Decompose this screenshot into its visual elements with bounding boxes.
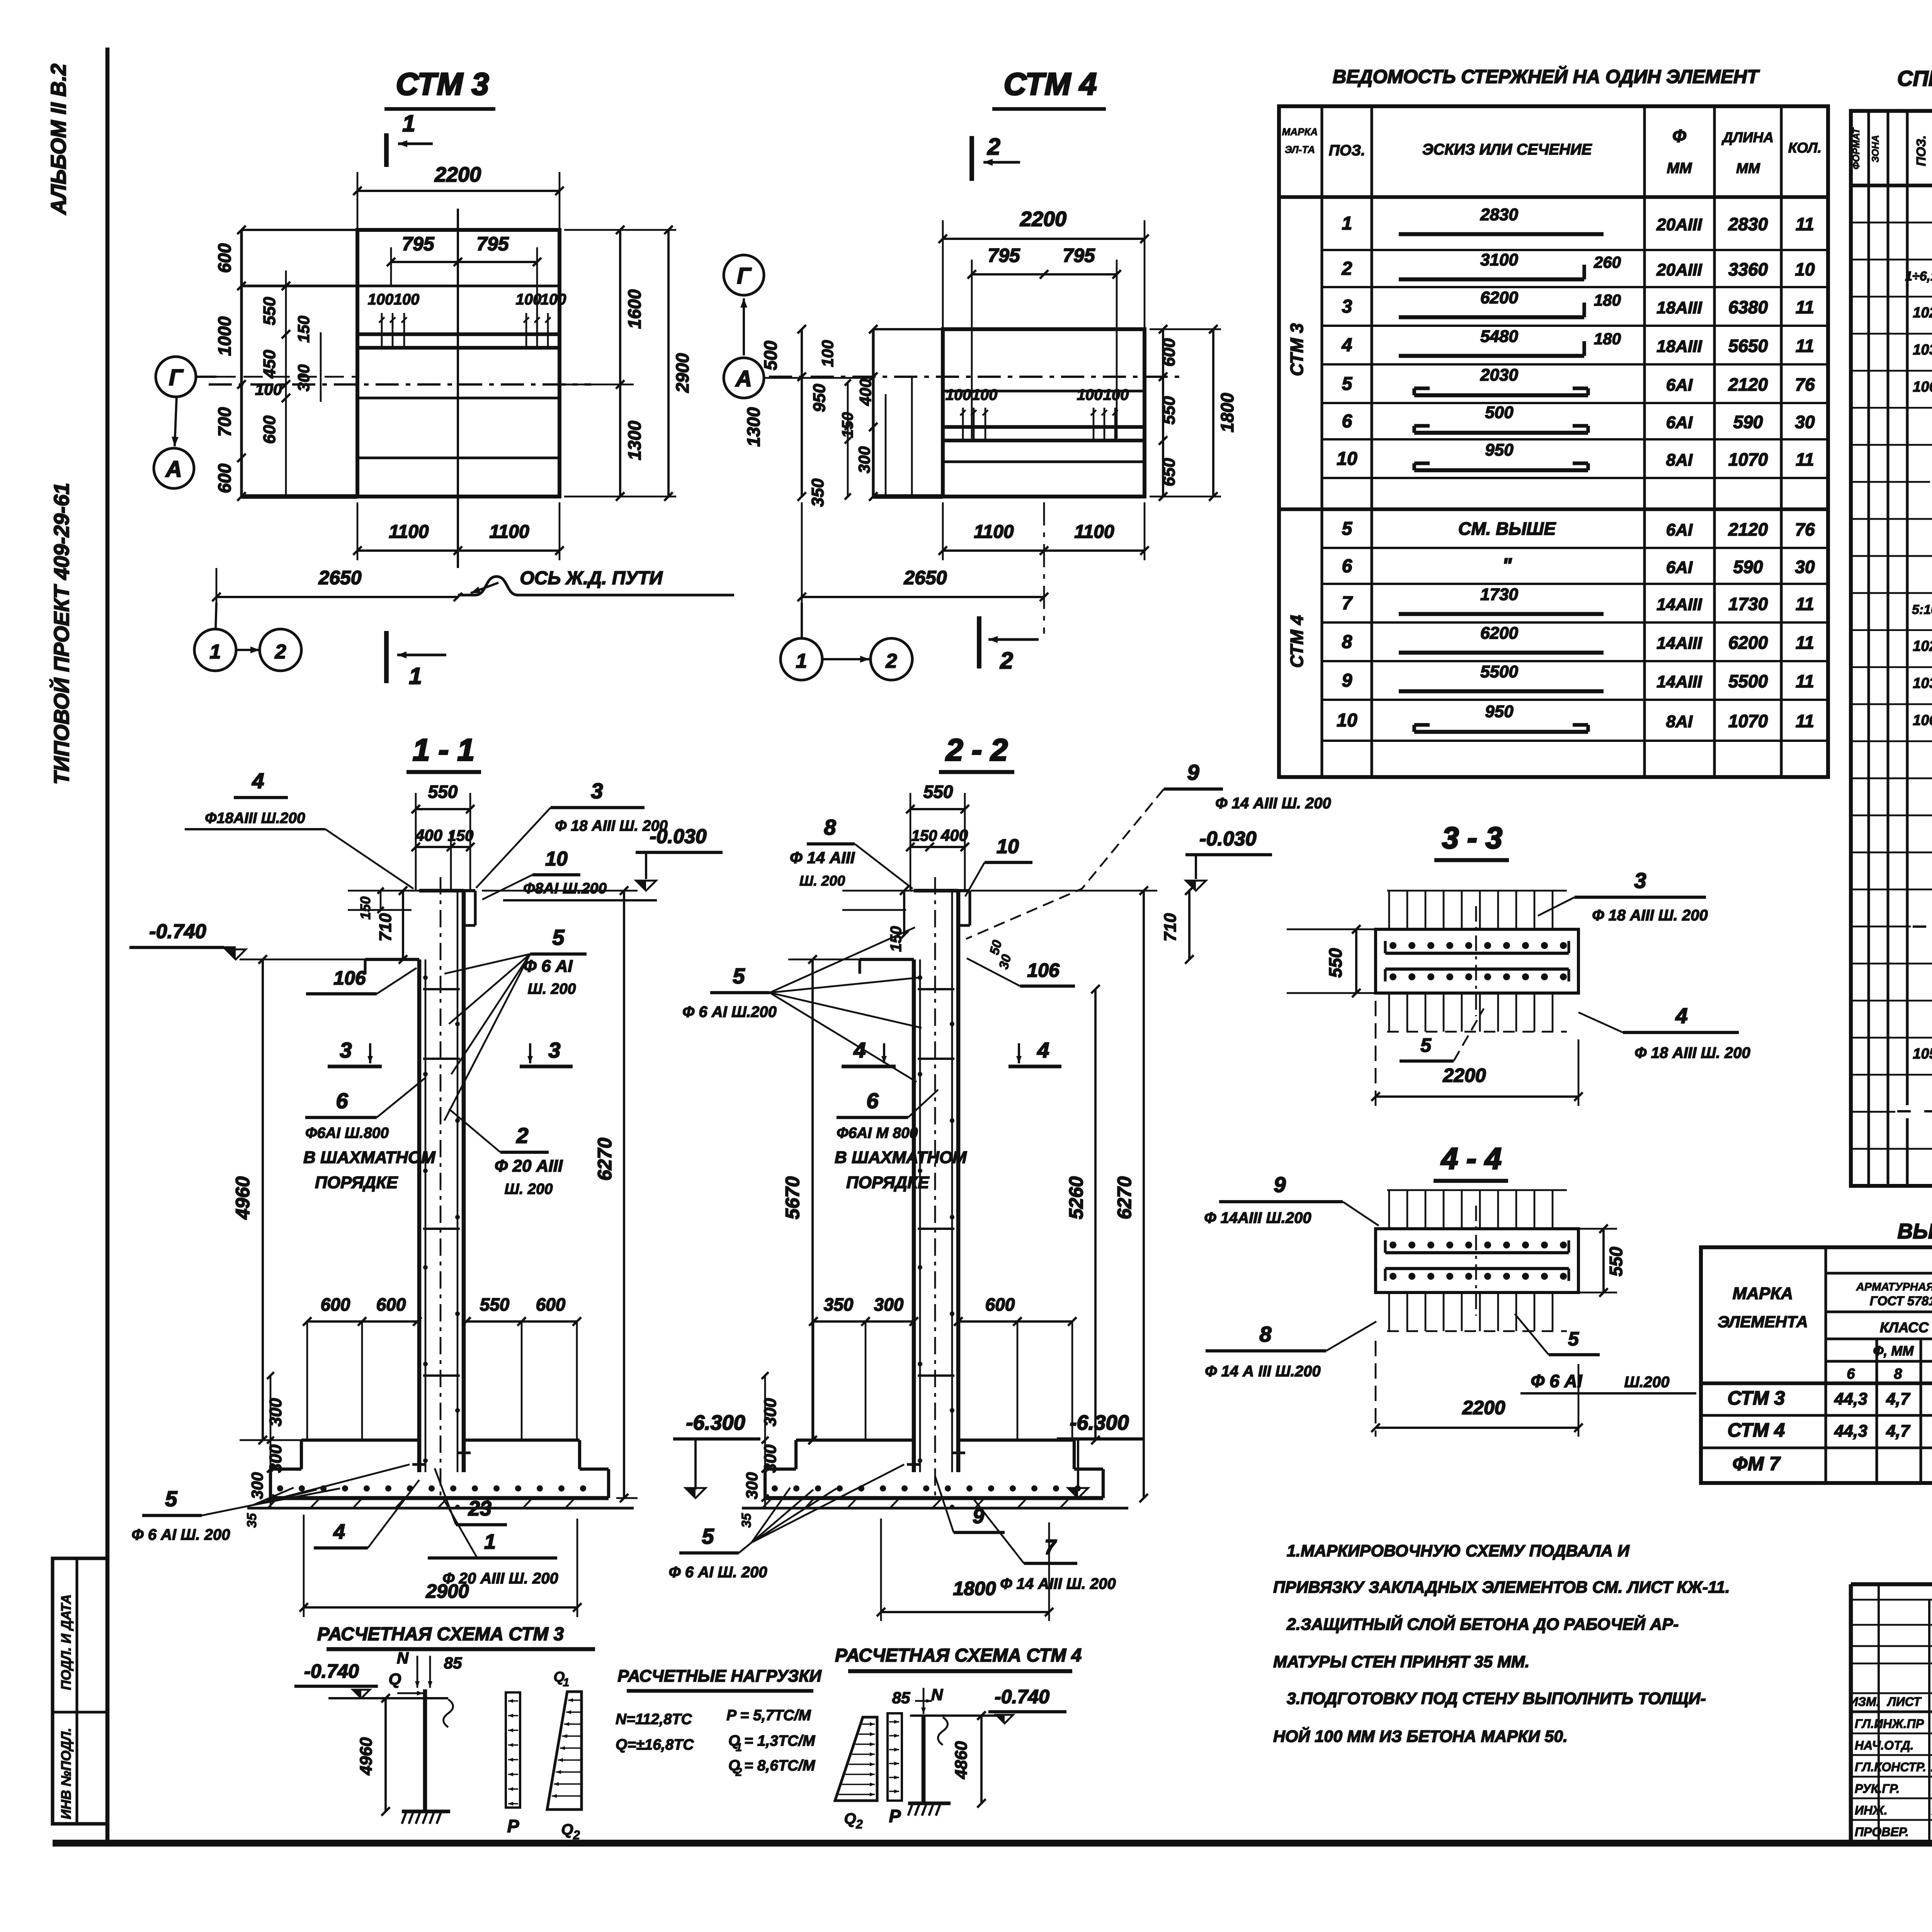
svg-text:1100: 1100 [489, 522, 529, 542]
svg-text:35: 35 [739, 1513, 754, 1528]
svg-text:3: 3 [1342, 296, 1352, 317]
svg-text:30: 30 [1795, 557, 1815, 577]
svg-text:1: 1 [409, 663, 422, 689]
svg-text:СТМ 4: СТМ 4 [1004, 67, 1097, 102]
svg-text:-0.740: -0.740 [149, 920, 206, 943]
svg-text:18АIII: 18АIII [1656, 298, 1702, 317]
svg-text:5: 5 [1568, 1328, 1579, 1350]
svg-text:МАРКА: МАРКА [1733, 1284, 1793, 1303]
svg-text:2900: 2900 [672, 353, 692, 393]
svg-text:5500: 5500 [1728, 671, 1768, 691]
svg-text:Ф8АI Ш.200: Ф8АI Ш.200 [523, 880, 607, 897]
svg-text:3: 3 [548, 1038, 560, 1062]
svg-text:1000: 1000 [214, 316, 235, 356]
svg-text:1.МАРКИРОВОЧНУЮ СХЕМУ ПОДВ: 1.МАРКИРОВОЧНУЮ СХЕМУ ПОДВАЛА И [1287, 1542, 1630, 1560]
svg-text:1: 1 [210, 641, 221, 663]
svg-text:100: 100 [972, 386, 998, 403]
svg-text:3100: 3100 [1480, 250, 1518, 269]
svg-text:102: 102 [1913, 638, 1932, 655]
svg-text:76: 76 [1795, 519, 1815, 539]
svg-text:590: 590 [1733, 412, 1763, 432]
svg-text:1300: 1300 [624, 420, 645, 460]
svg-text:5670: 5670 [782, 1176, 803, 1219]
svg-text:АРМАТУРНАЯ СТАЛЬ: АРМАТУРНАЯ СТАЛЬ [1856, 1281, 1932, 1293]
svg-text:11: 11 [1796, 711, 1814, 731]
svg-text:5650: 5650 [1728, 336, 1768, 356]
svg-text:350: 350 [824, 1294, 854, 1315]
svg-text:6380: 6380 [1728, 297, 1768, 317]
svg-text:400: 400 [856, 379, 874, 406]
svg-text:1: 1 [736, 1741, 742, 1754]
svg-text:-0.740: -0.740 [995, 1686, 1049, 1708]
svg-text:2650: 2650 [318, 567, 361, 588]
svg-text:Ф6АI Ш.800: Ф6АI Ш.800 [305, 1125, 389, 1141]
svg-text:6АI: 6АI [1666, 376, 1693, 395]
svg-text:P: P [889, 1806, 901, 1826]
svg-text:ОСЬ Ж.Д. ПУТИ: ОСЬ Ж.Д. ПУТИ [520, 568, 663, 588]
svg-text:2200: 2200 [1020, 207, 1066, 231]
svg-text:4960: 4960 [357, 1737, 376, 1776]
svg-text:105: 105 [1913, 1046, 1932, 1062]
svg-text:9: 9 [1274, 1172, 1286, 1197]
svg-text:СТМ 4: СТМ 4 [1728, 1419, 1785, 1441]
svg-text:11: 11 [1796, 449, 1814, 469]
svg-text:2: 2 [573, 1828, 580, 1842]
svg-text:6: 6 [1342, 556, 1352, 577]
svg-text:5500: 5500 [1480, 662, 1518, 681]
svg-text:10: 10 [997, 835, 1019, 858]
svg-text:2830: 2830 [1480, 205, 1518, 224]
svg-text:6АI: 6АI [1666, 558, 1693, 577]
svg-text:Ф 14 А III Ш.200: Ф 14 А III Ш.200 [1205, 1363, 1320, 1380]
svg-text:ЗОНА: ЗОНА [1870, 135, 1881, 163]
svg-text:ГЛ.ИНЖ.ПР: ГЛ.ИНЖ.ПР [1855, 1717, 1924, 1731]
svg-text:795: 795 [402, 233, 435, 255]
svg-text:2: 2 [855, 1817, 863, 1831]
svg-text:450: 450 [260, 350, 279, 379]
svg-text:2200: 2200 [1442, 1065, 1486, 1086]
svg-text:5: 5 [1420, 1034, 1432, 1056]
svg-text:ПРОВЕР.: ПРОВЕР. [1855, 1825, 1909, 1839]
svg-text:А: А [735, 366, 752, 391]
svg-text:Ф 14 АIII Ш. 200: Ф 14 АIII Ш. 200 [1000, 1575, 1116, 1592]
svg-text:550: 550 [480, 1294, 510, 1315]
svg-text:ЭЛ-ТА: ЭЛ-ТА [1285, 144, 1315, 155]
svg-text:5: 5 [552, 925, 565, 949]
svg-text:4 - 4: 4 - 4 [1440, 1141, 1502, 1175]
svg-text:6: 6 [866, 1088, 879, 1113]
svg-text:35: 35 [245, 1513, 259, 1528]
svg-text:100: 100 [368, 291, 394, 308]
svg-text:ФМ 7: ФМ 7 [1733, 1453, 1781, 1475]
svg-text:20АIII: 20АIII [1656, 215, 1702, 234]
svg-text:Ф 6 АI Ш. 200: Ф 6 АI Ш. 200 [132, 1526, 230, 1543]
svg-text:1100: 1100 [389, 522, 429, 542]
svg-text:9: 9 [1187, 760, 1199, 784]
svg-text:23: 23 [468, 1497, 492, 1520]
svg-text:103: 103 [1913, 675, 1932, 692]
svg-text:МАРКА: МАРКА [1282, 126, 1318, 138]
svg-text:550: 550 [1606, 1247, 1626, 1276]
svg-text:Q: Q [389, 1670, 401, 1689]
svg-text:СТМ 3: СТМ 3 [396, 67, 489, 102]
svg-text:14АIII: 14АIII [1656, 595, 1702, 614]
svg-text:2: 2 [275, 641, 286, 663]
svg-text:Ф 6 АI Ш. 200: Ф 6 АI Ш. 200 [669, 1564, 767, 1581]
svg-text:4960: 4960 [232, 1176, 253, 1219]
svg-text:102: 102 [1913, 305, 1932, 321]
svg-text:ПОРЯДКЕ: ПОРЯДКЕ [846, 1173, 930, 1192]
svg-text:4: 4 [1675, 1003, 1687, 1028]
svg-text:ГЛ.КОНСТР.: ГЛ.КОНСТР. [1855, 1760, 1926, 1774]
svg-text:795: 795 [1063, 245, 1095, 266]
svg-text:11: 11 [1796, 633, 1814, 653]
svg-text:Ф6АI М 800: Ф6АI М 800 [837, 1125, 918, 1141]
svg-text:ПРИВЯЗКУ ЗАКЛАДНЫХ ЭЛЕМЕНТОВ: ПРИВЯЗКУ ЗАКЛАДНЫХ ЭЛЕМЕНТОВ СМ. ЛИСТ КЖ… [1273, 1578, 1730, 1597]
svg-text:700: 700 [214, 407, 235, 437]
svg-text:44,3: 44,3 [1834, 1422, 1867, 1440]
svg-text:В ШАХМАТНОМ: В ШАХМАТНОМ [303, 1148, 436, 1167]
svg-text:6200: 6200 [1728, 633, 1768, 653]
svg-text:": " [1502, 554, 1512, 577]
svg-text:795: 795 [476, 233, 509, 255]
svg-text:100: 100 [1103, 386, 1129, 403]
svg-text:РАСЧЕТНАЯ СХЕМА СТМ 4: РАСЧЕТНАЯ СХЕМА СТМ 4 [835, 1645, 1082, 1666]
svg-text:Ш. 200: Ш. 200 [528, 981, 576, 997]
svg-text:6: 6 [336, 1088, 348, 1113]
svg-text:6270: 6270 [1114, 1176, 1135, 1219]
svg-text:2: 2 [1000, 648, 1013, 673]
svg-text:180: 180 [1594, 291, 1621, 309]
svg-text:9: 9 [1342, 670, 1352, 691]
svg-text:СТМ 4: СТМ 4 [1287, 615, 1307, 668]
svg-text:8: 8 [824, 815, 836, 839]
svg-text:103: 103 [1913, 342, 1932, 358]
svg-text:ИЗМ.: ИЗМ. [1849, 1695, 1879, 1709]
svg-text:6200: 6200 [1480, 288, 1518, 307]
svg-text:РАСЧЕТНЫЕ НАГРУЗКИ: РАСЧЕТНЫЕ НАГРУЗКИ [617, 1667, 822, 1685]
svg-text:Ф: Ф [1672, 126, 1686, 146]
svg-text:100: 100 [818, 340, 837, 367]
svg-text:Ф 6 АI Ш.200: Ф 6 АI Ш.200 [682, 1003, 777, 1020]
svg-text:N: N [931, 1685, 944, 1704]
svg-text:ВЫБОРКА СТАЛИ НА О: ВЫБОРКА СТАЛИ НА ОДНИ ЭЛЕМЕНТ, КГ [1898, 1219, 1932, 1243]
svg-text:Ф 14 АIII Ш. 200: Ф 14 АIII Ш. 200 [1215, 795, 1331, 812]
svg-text:НАЧ.ОТД.: НАЧ.ОТД. [1855, 1738, 1914, 1752]
svg-text:Q: Q [844, 1810, 856, 1827]
svg-text:1: 1 [1342, 213, 1352, 234]
svg-text:2900: 2900 [425, 1580, 469, 1602]
svg-text:5: 5 [1342, 374, 1353, 394]
svg-text:ИНЖ.: ИНЖ. [1855, 1803, 1888, 1817]
svg-text:ПОРЯДКЕ: ПОРЯДКЕ [315, 1173, 398, 1192]
svg-text:10: 10 [1795, 259, 1815, 279]
svg-text:4: 4 [853, 1038, 866, 1062]
svg-text:590: 590 [1733, 557, 1763, 577]
svg-text:ММ: ММ [1736, 160, 1760, 176]
svg-text:710: 710 [1161, 913, 1180, 942]
svg-text:РУК.ГР.: РУК.ГР. [1855, 1782, 1900, 1796]
svg-text:3.ПОДГОТОВКУ ПОД СТЕНУ В: 3.ПОДГОТОВКУ ПОД СТЕНУ ВЫПОЛНИТЬ ТОЛЩИ- [1287, 1689, 1706, 1708]
svg-text:180: 180 [1594, 330, 1621, 348]
svg-text:4: 4 [252, 769, 264, 793]
svg-text:600: 600 [214, 463, 235, 493]
svg-text:9: 9 [973, 1505, 984, 1528]
svg-text:4,7: 4,7 [1886, 1389, 1911, 1408]
svg-text:ГОСТ 5781-75: ГОСТ 5781-75 [1870, 1294, 1932, 1308]
svg-text:2120: 2120 [1728, 374, 1768, 395]
svg-text:600: 600 [260, 415, 279, 444]
svg-text:8АI: 8АI [1666, 451, 1693, 469]
svg-text:400: 400 [415, 826, 442, 844]
svg-text:N: N [397, 1649, 409, 1667]
svg-text:100: 100 [946, 386, 971, 403]
svg-text:3: 3 [591, 779, 603, 803]
svg-text:Ш.200: Ш.200 [1624, 1374, 1669, 1391]
svg-text:Ш. 200: Ш. 200 [799, 873, 845, 889]
svg-text:Ф18АIII Ш.200: Ф18АIII Ш.200 [205, 810, 305, 827]
svg-text:10: 10 [545, 848, 568, 870]
svg-text:2 - 2: 2 - 2 [945, 733, 1008, 767]
svg-text:600: 600 [321, 1294, 350, 1315]
svg-text:76: 76 [1795, 374, 1815, 395]
svg-text:1100: 1100 [974, 522, 1014, 542]
svg-text:710: 710 [376, 913, 395, 942]
svg-text:Ф 14 АIII: Ф 14 АIII [790, 849, 855, 867]
svg-text:106: 106 [333, 967, 366, 989]
svg-text:300: 300 [266, 1398, 285, 1427]
svg-text:500: 500 [760, 340, 781, 370]
svg-text:1: 1 [796, 650, 807, 672]
svg-text:6АI: 6АI [1666, 520, 1693, 539]
svg-text:300: 300 [294, 364, 313, 391]
svg-text:7: 7 [1044, 1536, 1057, 1559]
svg-text:СМ. ВЫШЕ: СМ. ВЫШЕ [1458, 519, 1556, 539]
svg-text:1÷6,10: 1÷6,10 [1905, 269, 1932, 284]
svg-text:6АI: 6АI [1666, 413, 1693, 432]
svg-text:150: 150 [294, 316, 313, 343]
svg-text:ПОЗ.: ПОЗ. [1914, 135, 1928, 166]
svg-text:АЛЬБОМ II В.2: АЛЬБОМ II В.2 [46, 63, 70, 215]
svg-text:Ф 18 АIII Ш. 200: Ф 18 АIII Ш. 200 [555, 818, 668, 834]
svg-text:6200: 6200 [1480, 624, 1518, 643]
svg-text:МАТУРЫ СТЕН ПРИНЯТ 35 ММ: МАТУРЫ СТЕН ПРИНЯТ 35 ММ. [1273, 1653, 1529, 1671]
svg-text:150: 150 [912, 827, 937, 844]
svg-text:100: 100 [394, 291, 420, 308]
svg-text:4: 4 [1342, 335, 1352, 355]
svg-text:В ШАХМАТНОМ: В ШАХМАТНОМ [835, 1148, 967, 1167]
svg-text:550: 550 [1325, 948, 1345, 978]
svg-text:14АIII: 14АIII [1656, 672, 1702, 691]
svg-text:СТМ 3: СТМ 3 [1287, 323, 1307, 376]
svg-text:Ф 20 АIII: Ф 20 АIII [495, 1156, 563, 1175]
svg-text:3: 3 [340, 1038, 352, 1062]
svg-text:650: 650 [1160, 458, 1179, 486]
svg-text:2200: 2200 [1462, 1397, 1505, 1418]
svg-text:11: 11 [1796, 297, 1814, 317]
svg-text:Ф 18 АIII Ш. 200: Ф 18 АIII Ш. 200 [1634, 1044, 1750, 1061]
svg-text:5480: 5480 [1480, 327, 1518, 346]
svg-text:1070: 1070 [1728, 711, 1768, 731]
svg-text:P = 5,7ТС/М: P = 5,7ТС/М [726, 1707, 811, 1724]
svg-text:Ф 6 АI: Ф 6 АI [523, 957, 573, 976]
svg-text:1070: 1070 [1728, 449, 1768, 469]
svg-text:100: 100 [1077, 386, 1103, 403]
svg-text:550: 550 [260, 297, 279, 325]
svg-text:Г: Г [169, 365, 184, 390]
svg-text:2: 2 [1342, 259, 1352, 279]
svg-text:6: 6 [1847, 1366, 1855, 1382]
svg-text:300: 300 [761, 1444, 780, 1473]
svg-text:6: 6 [1342, 411, 1352, 432]
svg-text:2650: 2650 [903, 567, 947, 588]
svg-text:ЭЛЕМЕНТА: ЭЛЕМЕНТА [1718, 1313, 1808, 1331]
svg-text:550: 550 [1160, 396, 1179, 425]
svg-text:550: 550 [923, 782, 953, 802]
svg-text:2030: 2030 [1480, 366, 1518, 384]
svg-text:300: 300 [761, 1398, 780, 1427]
svg-text:106: 106 [1027, 959, 1060, 981]
svg-text:10: 10 [1337, 449, 1357, 469]
svg-text:85: 85 [892, 1689, 910, 1707]
svg-text:ПОДЛ. И ДАТА: ПОДЛ. И ДАТА [59, 1594, 74, 1690]
svg-text:8: 8 [1342, 632, 1352, 652]
svg-text:N=112,8ТС: N=112,8ТС [616, 1711, 692, 1728]
svg-text:950: 950 [1485, 702, 1514, 721]
svg-text:Ф 18 АIII Ш. 200: Ф 18 АIII Ш. 200 [1592, 907, 1708, 924]
svg-text:2: 2 [735, 1766, 742, 1779]
svg-text:4: 4 [333, 1520, 345, 1543]
svg-text:1: 1 [484, 1530, 496, 1553]
svg-text:1 - 1: 1 - 1 [413, 733, 474, 767]
svg-text:300: 300 [874, 1294, 904, 1315]
svg-text:ВЕДОМОСТЬ СТЕРЖНЕЙ НА ОДИН ЭЛЕ: ВЕДОМОСТЬ СТЕРЖНЕЙ НА ОДИН ЭЛЕМЕНТ [1333, 66, 1760, 87]
svg-text:106: 106 [1913, 712, 1932, 728]
svg-text:300: 300 [266, 1444, 285, 1473]
svg-text:20АIII: 20АIII [1656, 260, 1702, 279]
svg-text:-6.300: -6.300 [686, 1411, 745, 1434]
svg-text:44,3: 44,3 [1834, 1389, 1867, 1408]
svg-text:5: 5 [702, 1524, 714, 1548]
svg-text:11: 11 [1796, 336, 1814, 356]
svg-text:950: 950 [810, 384, 829, 412]
svg-text:500: 500 [1485, 403, 1514, 422]
svg-text:18АIII: 18АIII [1656, 337, 1702, 356]
svg-text:8АI: 8АI [1666, 712, 1693, 731]
svg-text:795: 795 [988, 245, 1020, 266]
svg-text:300: 300 [248, 1472, 266, 1499]
svg-text:Ш. 200: Ш. 200 [505, 1181, 553, 1197]
svg-text:ФОРМАТ: ФОРМАТ [1851, 127, 1862, 170]
svg-text:600: 600 [214, 243, 235, 273]
svg-text:600: 600 [1160, 338, 1179, 367]
svg-text:1: 1 [402, 111, 415, 136]
svg-text:150: 150 [357, 896, 373, 920]
svg-text:2.ЗАЩИТНЫЙ СЛОЙ БЕТОНА Д: 2.ЗАЩИТНЫЙ СЛОЙ БЕТОНА ДО РАБОЧЕЙ АР- [1286, 1614, 1679, 1634]
svg-text:P: P [507, 1816, 519, 1836]
svg-text:ТИПОВОЙ ПРОЕКТ 409-29-61: ТИПОВОЙ ПРОЕКТ 409-29-61 [49, 483, 73, 784]
svg-text:5: 5 [1342, 519, 1353, 539]
svg-text:1600: 1600 [624, 289, 645, 329]
svg-text:600: 600 [985, 1294, 1015, 1315]
svg-text:106: 106 [1913, 379, 1932, 395]
svg-text:2830: 2830 [1728, 214, 1768, 234]
svg-text:600: 600 [536, 1294, 566, 1315]
svg-text:100: 100 [541, 291, 566, 308]
svg-text:СПЕЦИФИКАЦИЯ ЭЛЕМЕНТОВ МОНОЛ: СПЕЦИФИКАЦИЯ ЭЛЕМЕНТОВ МОНОЛИТНОЙ Ж.-Б. … [1897, 66, 1932, 90]
svg-text:350: 350 [808, 478, 827, 507]
svg-text:30: 30 [1795, 412, 1815, 432]
svg-text:1730: 1730 [1480, 585, 1518, 604]
svg-text:5:10: 5:10 [1912, 602, 1932, 617]
svg-text:950: 950 [1485, 440, 1514, 459]
svg-text:-6.300: -6.300 [1070, 1411, 1129, 1434]
svg-text:1730: 1730 [1728, 594, 1768, 614]
svg-text:2: 2 [886, 650, 897, 672]
svg-text:2: 2 [516, 1123, 528, 1148]
svg-text:РАСЧЕТНАЯ СХЕМА СТМ 3: РАСЧЕТНАЯ СХЕМА СТМ 3 [317, 1624, 564, 1645]
svg-text:1300: 1300 [743, 407, 764, 447]
svg-text:Ф 6 АI: Ф 6 АI [1531, 1371, 1582, 1391]
svg-text:2200: 2200 [434, 163, 481, 186]
svg-text:ММ: ММ [1667, 160, 1692, 177]
svg-text:ИНВ №ПОДЛ.: ИНВ №ПОДЛ. [59, 1728, 74, 1820]
svg-text:260: 260 [1594, 253, 1621, 271]
svg-text:КОЛ.: КОЛ. [1788, 140, 1821, 156]
svg-text:11: 11 [1796, 671, 1814, 691]
svg-text:300: 300 [743, 1472, 761, 1499]
svg-text:1100: 1100 [1074, 522, 1114, 542]
svg-text:Г: Г [737, 264, 752, 289]
svg-text:1800: 1800 [953, 1578, 996, 1599]
svg-text:8: 8 [1894, 1366, 1902, 1382]
svg-text:ПОЗ.: ПОЗ. [1329, 142, 1365, 159]
svg-text:ЛИСТ: ЛИСТ [1887, 1695, 1922, 1709]
svg-text:4860: 4860 [952, 1741, 971, 1779]
svg-text:100: 100 [516, 291, 542, 308]
svg-text:Q=±16,8ТС: Q=±16,8ТС [616, 1736, 694, 1753]
svg-text:11: 11 [1796, 214, 1814, 234]
svg-text:4,7: 4,7 [1886, 1422, 1911, 1440]
svg-text:3 - 3: 3 - 3 [1442, 821, 1502, 855]
svg-text:8: 8 [1259, 1322, 1272, 1346]
svg-text:2: 2 [987, 134, 1000, 160]
svg-text:100: 100 [255, 380, 282, 398]
svg-text:6270: 6270 [594, 1138, 616, 1180]
svg-text:10: 10 [1337, 710, 1357, 731]
svg-text:300: 300 [855, 446, 873, 473]
svg-text:5: 5 [733, 964, 745, 988]
svg-text:1800: 1800 [1217, 393, 1237, 432]
svg-text:-0.030: -0.030 [1199, 828, 1257, 850]
svg-text:А: А [165, 457, 182, 482]
svg-text:ДЛИНА: ДЛИНА [1721, 129, 1774, 145]
svg-text:Ф 14АIII Ш.200: Ф 14АIII Ш.200 [1204, 1209, 1311, 1226]
svg-text:5260: 5260 [1065, 1176, 1087, 1219]
svg-text:7: 7 [1342, 593, 1353, 614]
svg-text:5: 5 [165, 1486, 177, 1511]
svg-text:11: 11 [1796, 594, 1814, 614]
svg-text:КЛАСС А-I: КЛАСС А-I [1880, 1320, 1932, 1335]
svg-text:ЭСКИЗ ИЛИ СЕЧЕНИЕ: ЭСКИЗ ИЛИ СЕЧЕНИЕ [1422, 141, 1592, 158]
svg-text:2120: 2120 [1728, 519, 1768, 539]
svg-text:Ф, ММ: Ф, ММ [1873, 1344, 1914, 1359]
svg-text:-0.740: -0.740 [304, 1660, 359, 1682]
svg-text:1: 1 [563, 1676, 570, 1689]
svg-text:4: 4 [1037, 1038, 1049, 1062]
svg-text:600: 600 [376, 1294, 406, 1315]
svg-text:Q: Q [561, 1821, 573, 1838]
